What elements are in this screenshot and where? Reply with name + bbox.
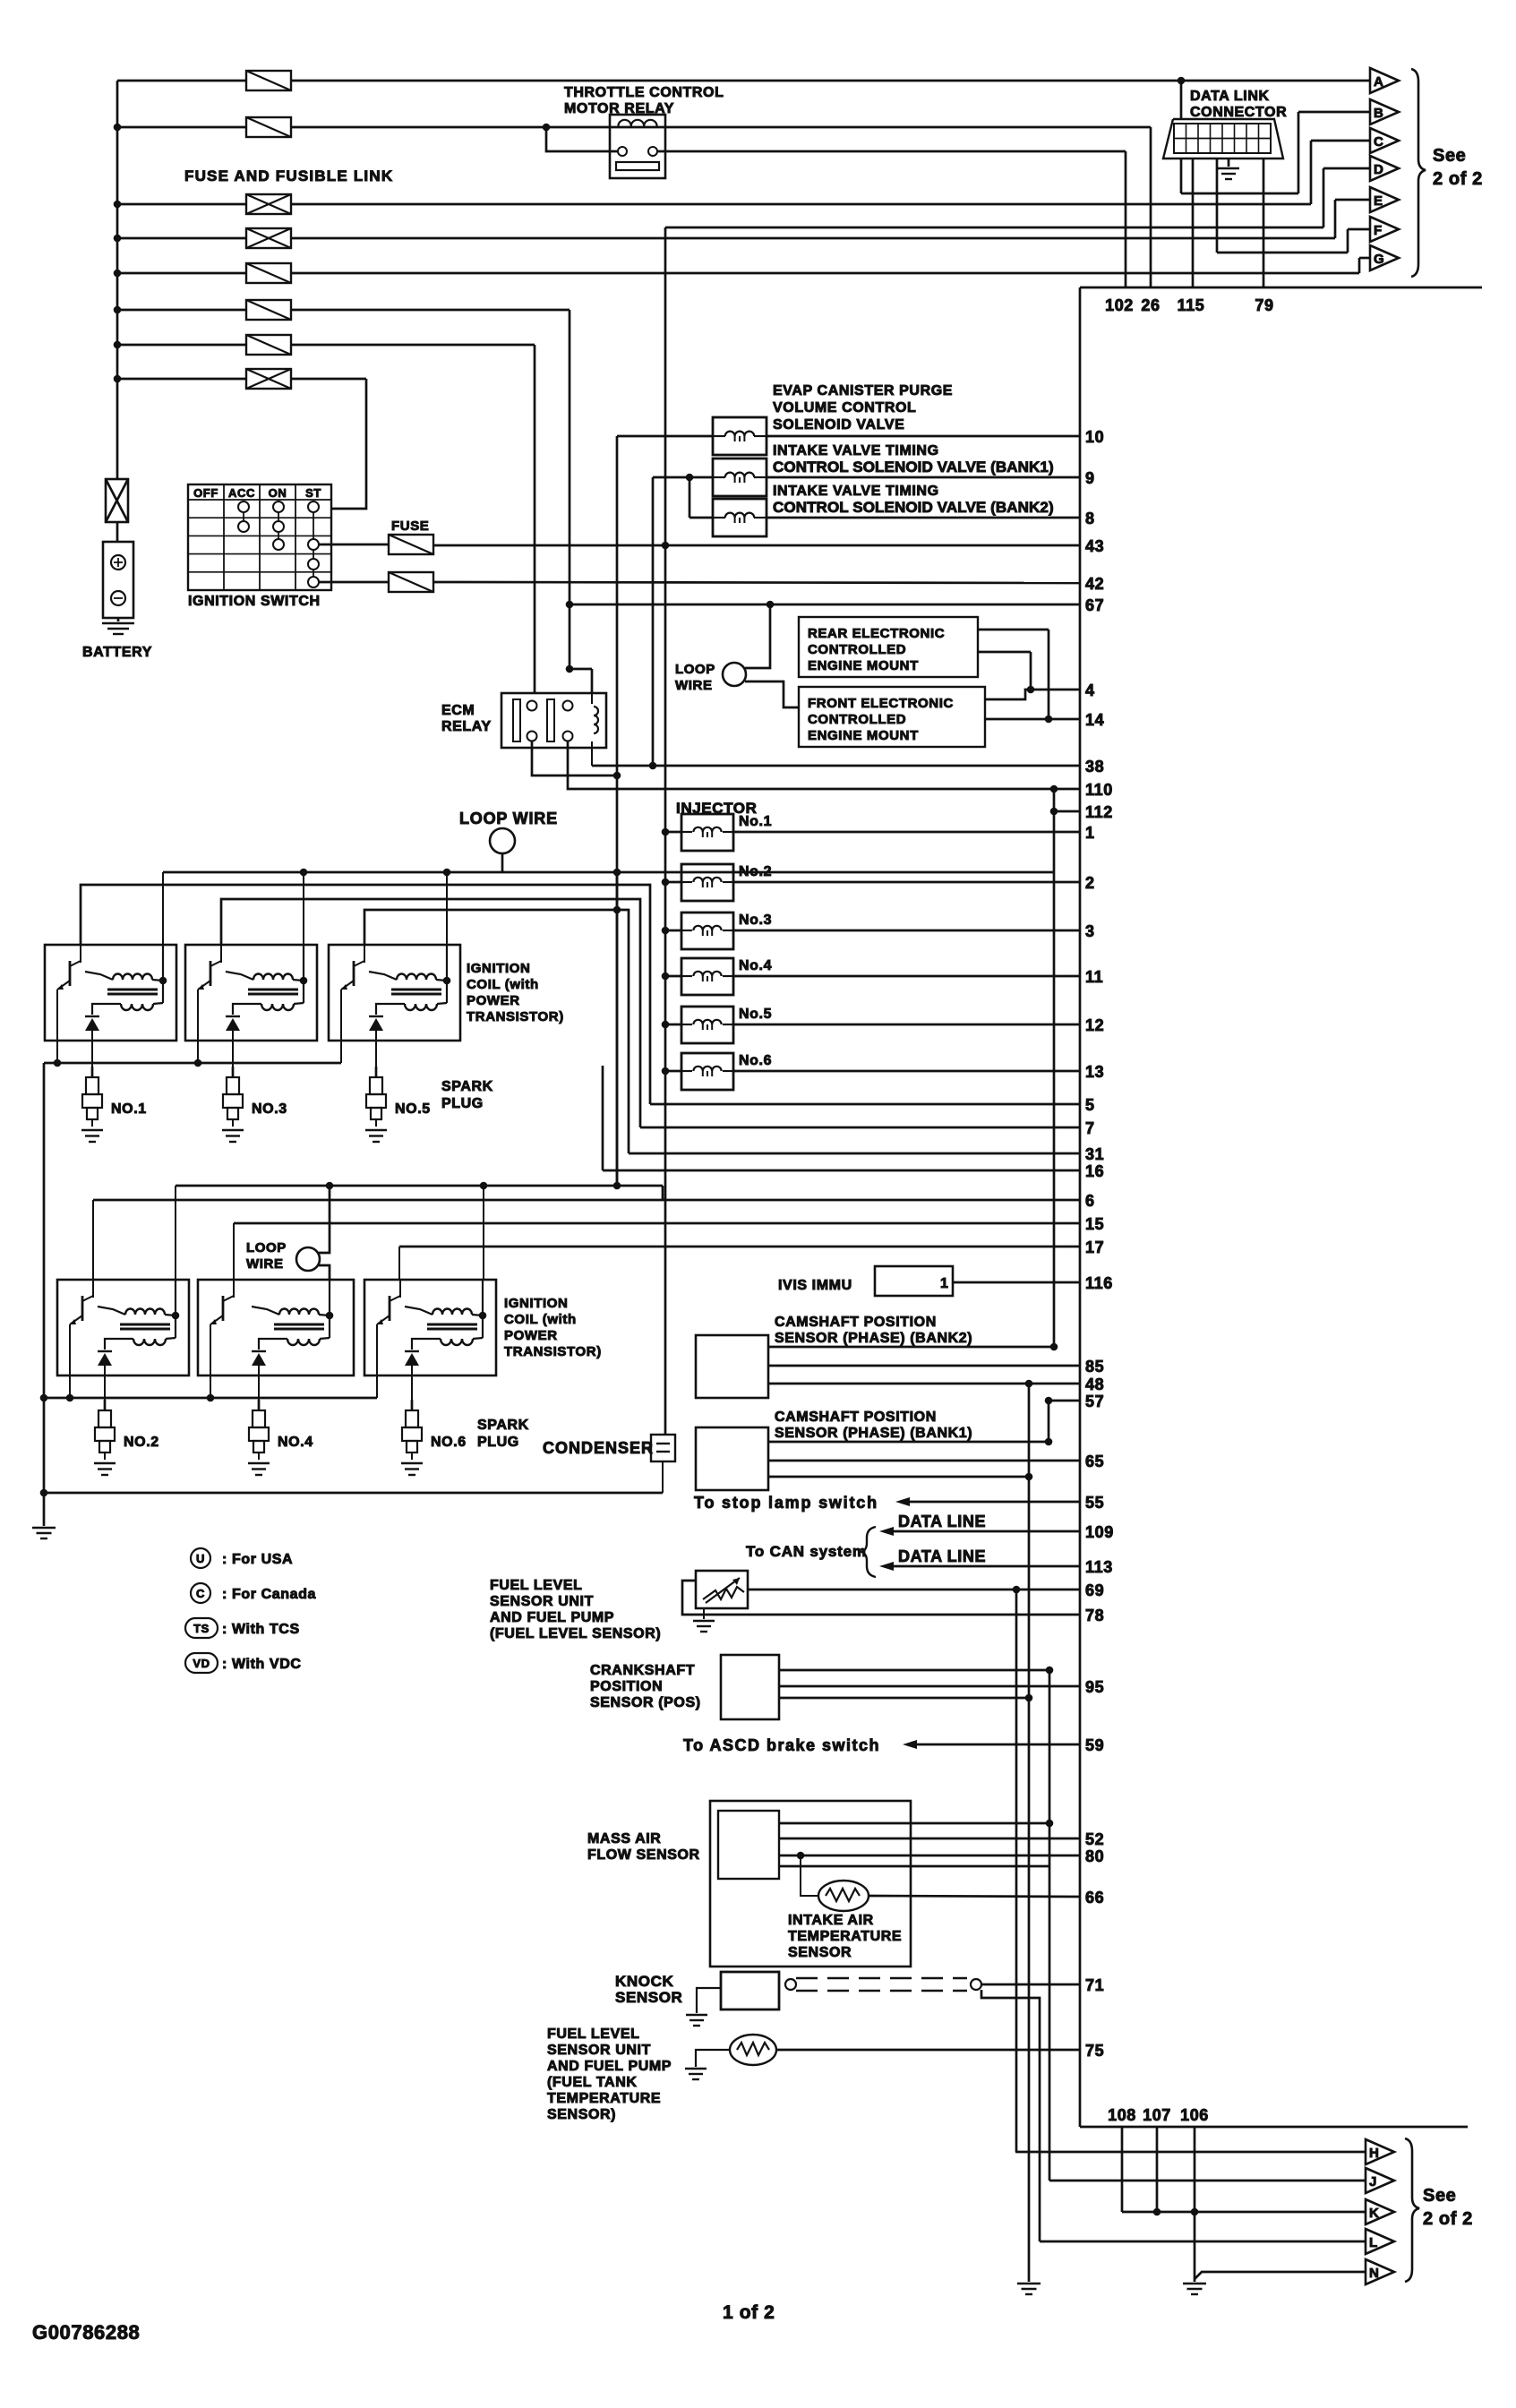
svg-text:COIL (with: COIL (with [467,977,539,992]
svg-text:FLOW SENSOR: FLOW SENSOR [587,1847,700,1863]
svg-text:E: E [1374,193,1383,209]
svg-text:FUSE AND FUSIBLE LINK: FUSE AND FUSIBLE LINK [184,167,393,184]
svg-text:ENGINE MOUNT: ENGINE MOUNT [808,658,919,673]
svg-text:D: D [1374,162,1383,177]
svg-text:K: K [1369,2206,1379,2221]
svg-text:102: 102 [1105,296,1134,314]
svg-text:57: 57 [1085,1393,1104,1410]
svg-text:IGNITION: IGNITION [504,1296,568,1311]
svg-text:VD: VD [193,1657,210,1670]
svg-text:A: A [1374,74,1383,90]
svg-text:INTAKE AIR: INTAKE AIR [788,1913,874,1928]
svg-text:SENSOR: SENSOR [788,1945,852,1960]
svg-text:COIL (with: COIL (with [504,1312,577,1327]
svg-text:CONTROL SOLENOID VALVE (BANK1): CONTROL SOLENOID VALVE (BANK1) [773,458,1054,476]
svg-text:To stop lamp switch: To stop lamp switch [694,1494,878,1512]
svg-text:6: 6 [1085,1192,1095,1210]
svg-text:ACC: ACC [228,486,255,500]
svg-text:NO.5: NO.5 [395,1101,431,1117]
svg-text:CONDENSER: CONDENSER [543,1439,654,1457]
svg-text:: With VDC: : With VDC [222,1657,302,1672]
svg-text:PLUG: PLUG [477,1435,519,1450]
svg-text:U: U [196,1552,205,1565]
svg-text:CONTROLLED: CONTROLLED [808,642,906,657]
svg-text:SENSOR UNIT: SENSOR UNIT [490,1594,594,1609]
svg-text:TEMPERATURE: TEMPERATURE [788,1929,902,1944]
svg-text:12: 12 [1085,1016,1104,1034]
svg-text:L: L [1369,2235,1378,2250]
svg-text:TEMPERATURE: TEMPERATURE [547,2091,661,2106]
svg-text:IGNITION SWITCH: IGNITION SWITCH [188,594,321,609]
svg-text:THROTTLE CONTROL: THROTTLE CONTROL [564,85,724,100]
svg-text:78: 78 [1085,1607,1104,1624]
svg-text:POWER: POWER [504,1328,558,1343]
svg-text:CONNECTOR: CONNECTOR [1190,105,1287,120]
svg-text:110: 110 [1085,781,1113,799]
svg-text:SENSOR (PHASE) (BANK2): SENSOR (PHASE) (BANK2) [775,1331,972,1346]
svg-text:TRANSISTOR): TRANSISTOR) [467,1009,564,1024]
svg-text:1: 1 [1085,824,1095,842]
svg-text:: For Canada: : For Canada [222,1587,316,1602]
svg-text:SPARK: SPARK [477,1418,529,1433]
svg-text:75: 75 [1085,2042,1104,2060]
svg-text:69: 69 [1085,1581,1104,1599]
svg-text:IVIS IMMU: IVIS IMMU [778,1278,852,1293]
svg-text:3: 3 [1085,922,1095,940]
svg-text:106: 106 [1180,2106,1209,2124]
svg-text:31: 31 [1085,1145,1104,1163]
svg-text:16: 16 [1085,1162,1104,1180]
svg-text:(FUEL LEVEL SENSOR): (FUEL LEVEL SENSOR) [490,1626,661,1641]
svg-text:10: 10 [1085,428,1104,446]
svg-text:CONTROL SOLENOID VALVE (BANK2): CONTROL SOLENOID VALVE (BANK2) [773,499,1054,516]
svg-text:KNOCK: KNOCK [615,1973,673,1990]
svg-text:NO.1: NO.1 [111,1101,147,1117]
svg-text:ENGINE MOUNT: ENGINE MOUNT [808,728,919,743]
svg-text:FUEL LEVEL: FUEL LEVEL [547,2027,640,2042]
svg-text:VOLUME CONTROL: VOLUME CONTROL [773,400,916,416]
svg-text:5: 5 [1085,1096,1095,1114]
svg-text:: With TCS: : With TCS [222,1622,300,1637]
svg-text:No.1: No.1 [739,814,772,829]
svg-text:79: 79 [1255,296,1273,314]
svg-text:15: 15 [1085,1215,1104,1233]
svg-text:: For USA: : For USA [222,1552,293,1567]
svg-text:59: 59 [1085,1736,1104,1754]
svg-text:113: 113 [1085,1558,1113,1576]
svg-text:ST: ST [305,486,321,500]
svg-text:115: 115 [1178,296,1205,314]
svg-text:POSITION: POSITION [590,1679,663,1694]
svg-text:C: C [196,1587,205,1600]
svg-text:NO.2: NO.2 [124,1435,159,1450]
svg-text:95: 95 [1085,1678,1104,1696]
svg-text:B: B [1374,106,1383,121]
svg-text:SENSOR UNIT: SENSOR UNIT [547,2043,651,2058]
svg-text:67: 67 [1085,596,1104,614]
svg-text:11: 11 [1085,968,1103,986]
svg-text:55: 55 [1085,1494,1104,1512]
svg-text:NO.6: NO.6 [431,1435,467,1450]
svg-text:OFF: OFF [193,486,218,500]
svg-text:66: 66 [1085,1889,1104,1907]
svg-text:108: 108 [1108,2106,1136,2124]
svg-text:14: 14 [1085,711,1104,729]
svg-text:SPARK: SPARK [441,1079,493,1094]
svg-text:EVAP CANISTER PURGE: EVAP CANISTER PURGE [773,383,953,398]
svg-text:POWER: POWER [467,993,520,1008]
svg-text:NO.4: NO.4 [278,1435,313,1450]
svg-text:BATTERY: BATTERY [82,645,152,660]
svg-text:52: 52 [1085,1830,1104,1848]
svg-text:DATA LINE: DATA LINE [898,1547,986,1565]
svg-text:AND FUEL PUMP: AND FUEL PUMP [547,2059,672,2074]
svg-text:2 of 2: 2 of 2 [1433,169,1483,189]
svg-text:13: 13 [1085,1063,1104,1081]
svg-text:CAMSHAFT POSITION: CAMSHAFT POSITION [775,1315,937,1330]
svg-text:ON: ON [269,486,287,500]
svg-text:AND FUEL PUMP: AND FUEL PUMP [490,1610,614,1625]
svg-text:DATA LINE: DATA LINE [898,1512,986,1530]
svg-text:INTAKE VALVE TIMING: INTAKE VALVE TIMING [773,484,939,499]
svg-text:17: 17 [1085,1238,1104,1256]
svg-text:71: 71 [1085,1976,1104,1994]
svg-text:LOOP: LOOP [675,662,715,677]
svg-text:C: C [1374,134,1383,150]
svg-text:No.6: No.6 [739,1053,772,1068]
svg-text:WIRE: WIRE [246,1256,284,1272]
svg-text:G: G [1374,252,1384,267]
svg-text:TS: TS [193,1622,210,1635]
svg-text:INTAKE VALVE TIMING: INTAKE VALVE TIMING [773,443,939,458]
svg-text:G00786288: G00786288 [32,2321,140,2344]
svg-text:SENSOR (POS): SENSOR (POS) [590,1695,701,1710]
svg-text:See: See [1423,2186,1456,2206]
svg-text:FUEL LEVEL: FUEL LEVEL [490,1578,583,1593]
svg-text:MASS AIR: MASS AIR [587,1831,661,1847]
svg-text:To ASCD brake switch: To ASCD brake switch [683,1736,880,1754]
svg-text:See: See [1433,146,1466,166]
svg-text:WIRE: WIRE [675,678,713,693]
svg-text:SOLENOID VALVE: SOLENOID VALVE [773,417,904,433]
svg-text:9: 9 [1085,469,1095,487]
svg-text:2 of 2: 2 of 2 [1423,2209,1473,2229]
svg-text:To CAN system: To CAN system [746,1543,867,1560]
svg-text:No.4: No.4 [739,958,772,973]
svg-text:42: 42 [1085,575,1104,593]
svg-text:107: 107 [1143,2106,1171,2124]
svg-text:8: 8 [1085,510,1095,527]
svg-text:38: 38 [1085,758,1104,776]
svg-text:RELAY: RELAY [441,719,492,734]
svg-text:80: 80 [1085,1847,1104,1865]
svg-text:43: 43 [1085,537,1104,555]
svg-text:PLUG: PLUG [441,1096,484,1111]
svg-text:J: J [1369,2174,1377,2189]
svg-text:116: 116 [1085,1274,1113,1292]
svg-text:CONTROLLED: CONTROLLED [808,712,906,727]
svg-text:F: F [1374,223,1383,238]
svg-text:(FUEL TANK: (FUEL TANK [547,2075,638,2090]
svg-text:No.2: No.2 [739,864,772,879]
svg-text:109: 109 [1085,1523,1114,1541]
svg-text:FUSE: FUSE [391,518,429,534]
svg-text:SENSOR: SENSOR [615,1989,682,2006]
svg-text:FRONT ELECTRONIC: FRONT ELECTRONIC [808,696,954,711]
svg-text:N: N [1369,2266,1379,2281]
svg-text:26: 26 [1141,296,1160,314]
svg-text:DATA LINK: DATA LINK [1190,89,1270,104]
svg-text:SENSOR): SENSOR) [547,2107,616,2122]
svg-text:65: 65 [1085,1453,1104,1470]
svg-text:4: 4 [1085,681,1095,699]
svg-text:112: 112 [1085,803,1113,821]
svg-text:No.3: No.3 [739,913,772,928]
svg-text:2: 2 [1085,874,1095,892]
svg-text:85: 85 [1085,1358,1104,1375]
svg-text:ECM: ECM [441,703,475,718]
svg-text:H: H [1369,2146,1379,2161]
svg-text:SENSOR (PHASE) (BANK1): SENSOR (PHASE) (BANK1) [775,1426,972,1441]
svg-text:1: 1 [940,1276,949,1291]
svg-text:REAR ELECTRONIC: REAR ELECTRONIC [808,626,945,641]
svg-text:No.5: No.5 [739,1007,772,1022]
svg-text:NO.3: NO.3 [252,1101,287,1117]
svg-text:1 of 2: 1 of 2 [723,2302,775,2323]
svg-text:LOOP: LOOP [246,1240,287,1255]
svg-text:CRANKSHAFT: CRANKSHAFT [590,1663,695,1678]
svg-text:48: 48 [1085,1375,1104,1393]
svg-text:IGNITION: IGNITION [467,961,530,976]
svg-text:7: 7 [1085,1119,1095,1137]
svg-text:TRANSISTOR): TRANSISTOR) [504,1344,602,1359]
svg-text:LOOP WIRE: LOOP WIRE [459,810,558,827]
svg-text:CAMSHAFT POSITION: CAMSHAFT POSITION [775,1410,937,1425]
